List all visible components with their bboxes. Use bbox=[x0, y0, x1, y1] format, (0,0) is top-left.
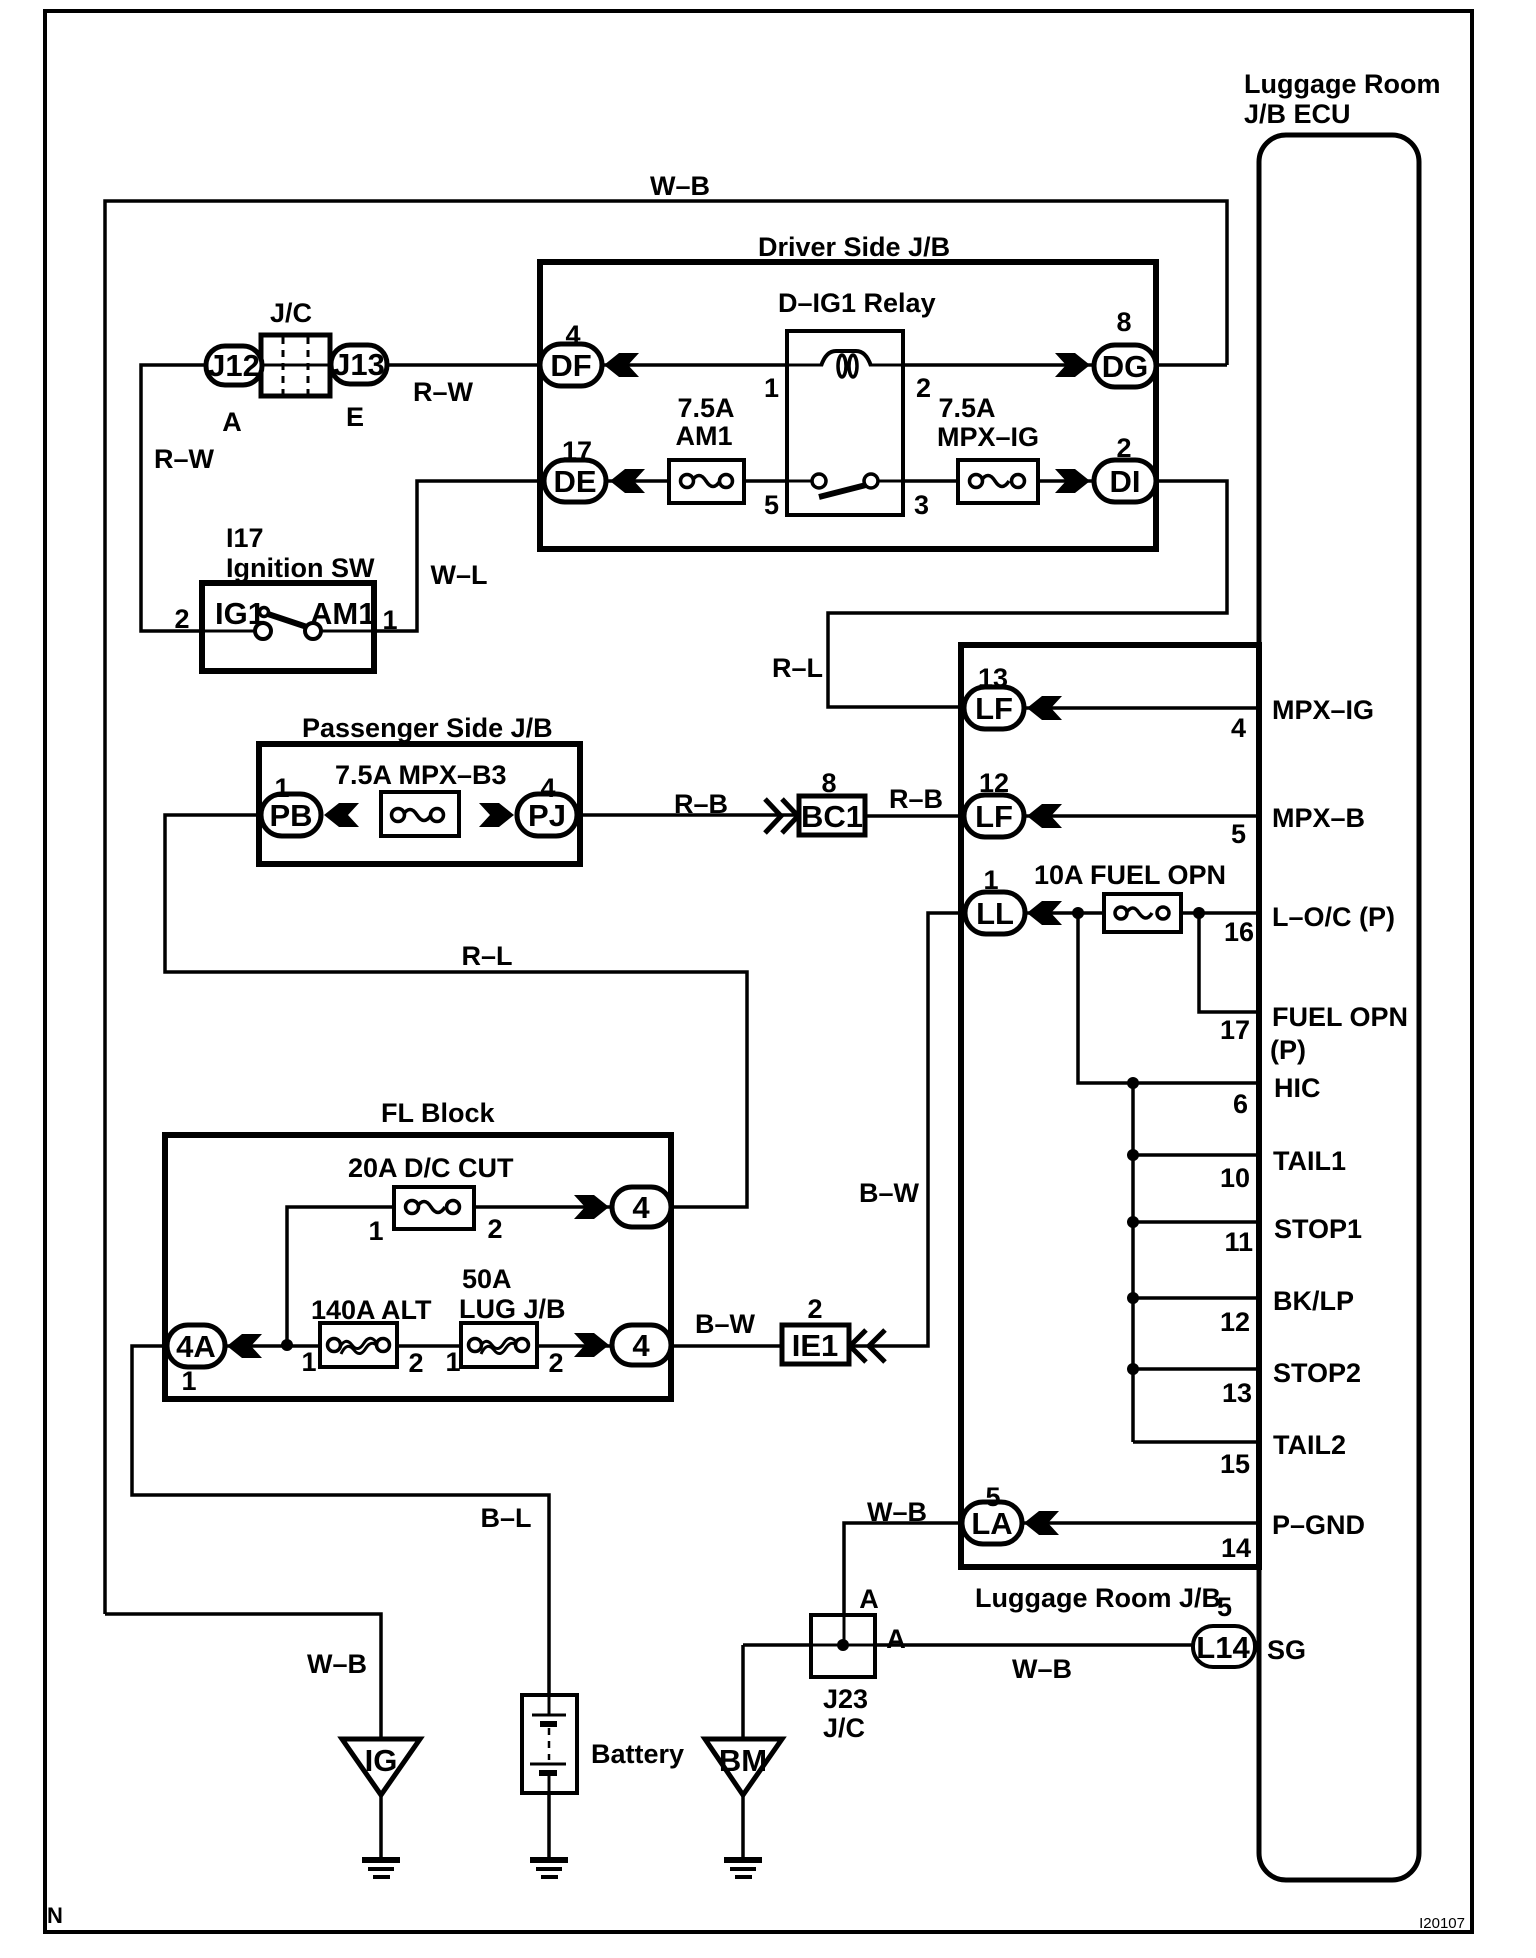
connector L14 bbox=[1193, 1626, 1255, 1667]
wire BC1 to LF12 bbox=[866, 814, 968, 818]
svg-text:5: 5 bbox=[985, 1482, 1000, 1512]
junction dot LL left bbox=[1072, 907, 1084, 919]
connector J13 bbox=[331, 345, 387, 432]
wire TAIL1 pin bbox=[1133, 1153, 1259, 1157]
svg-text:BC1: BC1 bbox=[801, 799, 863, 834]
svg-text:17: 17 bbox=[562, 436, 592, 466]
svg-text:W–B: W–B bbox=[867, 1497, 927, 1527]
wire battery to ground bbox=[547, 1793, 551, 1862]
wire FUEL OPN pin bbox=[1199, 913, 1259, 1012]
svg-text:Battery: Battery bbox=[591, 1739, 684, 1769]
svg-text:HIC: HIC bbox=[1274, 1073, 1321, 1103]
svg-text:15: 15 bbox=[1220, 1449, 1250, 1479]
svg-text:1: 1 bbox=[445, 1347, 460, 1377]
wire PB to R-L riser bbox=[165, 815, 747, 1207]
wire LL row to ECU bbox=[1022, 911, 1259, 915]
connector DE bbox=[544, 436, 645, 502]
wire J/C through bbox=[262, 363, 331, 367]
connector BC1 bbox=[799, 768, 865, 835]
svg-text:10: 10 bbox=[1220, 1163, 1250, 1193]
wire FL row2 to IE1 (B-W) bbox=[668, 1344, 785, 1348]
svg-text:R–W: R–W bbox=[413, 377, 474, 407]
svg-text:12: 12 bbox=[979, 768, 1009, 798]
Driver Side J/B box bbox=[540, 262, 1156, 549]
svg-text:1: 1 bbox=[181, 1366, 196, 1396]
wire DF to DG through relay bbox=[602, 363, 1098, 367]
ground triangle IG bbox=[342, 1739, 420, 1877]
fuse 20A D/C CUT bbox=[348, 1153, 514, 1246]
svg-text:IG: IG bbox=[365, 1743, 398, 1778]
svg-text:TAIL2: TAIL2 bbox=[1273, 1430, 1346, 1460]
junction connector J/C box bbox=[261, 298, 330, 396]
svg-text:J/B ECU: J/B ECU bbox=[1244, 99, 1351, 129]
wire inside relay switch row bbox=[787, 480, 813, 483]
connector PB bbox=[261, 773, 359, 836]
svg-text:R–L: R–L bbox=[461, 941, 512, 971]
junction connector J23 bbox=[811, 1584, 906, 1743]
svg-text:DF: DF bbox=[550, 348, 591, 383]
svg-text:14: 14 bbox=[1221, 1533, 1251, 1563]
svg-text:BK/LP: BK/LP bbox=[1273, 1286, 1354, 1316]
svg-text:6: 6 bbox=[1233, 1089, 1248, 1119]
svg-text:4: 4 bbox=[632, 1328, 650, 1363]
wire STOP1 pin bbox=[1133, 1220, 1259, 1224]
svg-text:4: 4 bbox=[565, 320, 580, 350]
junction dot HIC bbox=[1127, 1077, 1139, 1089]
svg-text:4: 4 bbox=[1231, 713, 1246, 743]
svg-text:J13: J13 bbox=[333, 347, 385, 382]
wire bus vertical bbox=[1131, 1083, 1135, 1442]
fusible link 50A LUG J/B bbox=[445, 1264, 565, 1378]
connector J12 bbox=[206, 346, 262, 437]
svg-text:BM: BM bbox=[719, 1743, 767, 1778]
svg-text:R–B: R–B bbox=[674, 789, 728, 819]
junction dot STOP1 bbox=[1127, 1216, 1139, 1228]
svg-text:8: 8 bbox=[821, 768, 836, 798]
svg-text:16: 16 bbox=[1224, 917, 1254, 947]
svg-text:4: 4 bbox=[540, 773, 555, 803]
svg-text:1: 1 bbox=[301, 1347, 316, 1377]
svg-text:4: 4 bbox=[632, 1190, 650, 1225]
relay switch contacts bbox=[819, 485, 866, 497]
wire P-GND pin bbox=[1018, 1521, 1259, 1525]
wire inside relay coil row bbox=[787, 364, 823, 367]
wire W-B top horizontal bbox=[105, 201, 1227, 1614]
svg-text:5: 5 bbox=[1217, 1592, 1232, 1622]
svg-text:5: 5 bbox=[764, 490, 779, 520]
svg-text:W–B: W–B bbox=[307, 1649, 367, 1679]
svg-text:STOP1: STOP1 bbox=[1274, 1214, 1362, 1244]
relay coil bbox=[821, 351, 871, 366]
connector 4A bbox=[167, 1325, 262, 1396]
wire STOP2 pin bbox=[1133, 1367, 1259, 1371]
svg-text:L–O/C (P): L–O/C (P) bbox=[1272, 902, 1395, 932]
svg-text:LF: LF bbox=[975, 691, 1013, 726]
svg-text:LF: LF bbox=[975, 799, 1013, 834]
svg-text:W–L: W–L bbox=[431, 560, 488, 590]
svg-text:50A: 50A bbox=[462, 1264, 512, 1294]
svg-text:2: 2 bbox=[408, 1348, 423, 1378]
svg-text:A: A bbox=[886, 1624, 906, 1654]
svg-text:B–W: B–W bbox=[695, 1309, 756, 1339]
connector DI bbox=[1055, 433, 1156, 502]
svg-text:10A FUEL OPN: 10A FUEL OPN bbox=[1034, 860, 1226, 890]
fuse 7.5A MPX-IG bbox=[937, 393, 1039, 503]
wire PJ to BC1 bbox=[574, 813, 802, 817]
svg-text:Luggage Room: Luggage Room bbox=[1244, 69, 1441, 99]
svg-text:2: 2 bbox=[174, 604, 189, 634]
wire relay switch to DI bbox=[871, 479, 1098, 483]
junction dot FL row2 bbox=[281, 1339, 293, 1351]
svg-text:B–W: B–W bbox=[859, 1178, 920, 1208]
Passenger Side J/B box bbox=[259, 744, 580, 864]
svg-text:R–L: R–L bbox=[772, 653, 823, 683]
connector 4 row2 bbox=[574, 1325, 671, 1365]
svg-text:MPX–IG: MPX–IG bbox=[937, 422, 1039, 452]
fuse 10A FUEL OPN bbox=[1034, 860, 1226, 932]
svg-text:DI: DI bbox=[1110, 464, 1141, 499]
connector LF 13 bbox=[964, 663, 1062, 729]
svg-text:3: 3 bbox=[914, 490, 929, 520]
svg-text:MPX–B: MPX–B bbox=[1272, 803, 1365, 833]
junction dot STOP2 bbox=[1127, 1363, 1139, 1375]
Luggage Room J/B ECU outline bbox=[1259, 135, 1419, 1880]
chevrons after IE1 bbox=[850, 1330, 885, 1362]
svg-text:1: 1 bbox=[368, 1216, 383, 1246]
svg-text:STOP2: STOP2 bbox=[1273, 1358, 1361, 1388]
battery bbox=[522, 1695, 684, 1877]
svg-text:I20107: I20107 bbox=[1419, 1915, 1465, 1932]
connector LF 12 bbox=[964, 768, 1062, 837]
svg-text:R–B: R–B bbox=[889, 784, 943, 814]
svg-text:IE1: IE1 bbox=[792, 1328, 839, 1363]
wire DI down to LF13 (R-L) bbox=[828, 481, 1227, 707]
svg-text:B–L: B–L bbox=[480, 1503, 531, 1533]
wire TAIL2 pin bbox=[1133, 1440, 1259, 1444]
svg-text:L14: L14 bbox=[1196, 1630, 1250, 1665]
connector 4 row1 bbox=[574, 1187, 671, 1227]
wire J12 to ignition SW bbox=[141, 365, 263, 631]
svg-text:1: 1 bbox=[764, 373, 779, 403]
svg-text:Passenger Side J/B: Passenger Side J/B bbox=[302, 713, 553, 743]
svg-text:2: 2 bbox=[916, 373, 931, 403]
svg-text:7.5A MPX–B3: 7.5A MPX–B3 bbox=[335, 760, 507, 790]
wire FL row2 main bbox=[225, 1344, 612, 1348]
svg-text:140A ALT: 140A ALT bbox=[311, 1295, 432, 1325]
svg-text:Ignition SW: Ignition SW bbox=[226, 553, 375, 583]
svg-text:A: A bbox=[222, 407, 242, 437]
junction dot LL right bbox=[1193, 907, 1205, 919]
fuse 7.5A MPX-B3 bbox=[335, 760, 507, 836]
svg-text:17: 17 bbox=[1220, 1015, 1250, 1045]
wire J23 to BM bbox=[741, 1645, 745, 1741]
svg-text:FUEL OPN: FUEL OPN bbox=[1272, 1002, 1408, 1032]
connector IE1 bbox=[782, 1294, 849, 1364]
svg-text:Driver Side J/B: Driver Side J/B bbox=[758, 232, 950, 262]
svg-text:5: 5 bbox=[1231, 819, 1246, 849]
wire MPX-IG pin bbox=[1021, 706, 1259, 710]
svg-text:PJ: PJ bbox=[528, 798, 566, 833]
connector PJ bbox=[479, 773, 577, 836]
svg-text:Luggage Room J/B: Luggage Room J/B bbox=[975, 1583, 1221, 1613]
svg-text:LUG J/B: LUG J/B bbox=[459, 1294, 566, 1324]
svg-text:SG: SG bbox=[1267, 1635, 1306, 1665]
FL Block box bbox=[165, 1135, 671, 1399]
wire BK/LP pin bbox=[1133, 1296, 1259, 1300]
wire LA to J23 (W-B) bbox=[844, 1523, 966, 1644]
svg-text:8: 8 bbox=[1116, 307, 1131, 337]
svg-text:(P): (P) bbox=[1270, 1035, 1306, 1065]
svg-text:E: E bbox=[346, 402, 364, 432]
svg-text:2: 2 bbox=[548, 1348, 563, 1378]
wire MPX-B pin bbox=[1021, 814, 1259, 818]
ignition switch I17 box bbox=[174, 523, 397, 671]
wire J13 to DF bbox=[387, 363, 545, 367]
connector DF bbox=[540, 320, 639, 386]
wire 4A to B-L riser bbox=[132, 1346, 549, 1697]
svg-text:2: 2 bbox=[487, 1214, 502, 1244]
svg-text:DE: DE bbox=[553, 464, 596, 499]
junction dot BK/LP bbox=[1127, 1292, 1139, 1304]
svg-text:N: N bbox=[47, 1903, 63, 1928]
wire FL row1 D/C CUT bbox=[287, 1207, 612, 1345]
junction dot TAIL1 bbox=[1127, 1149, 1139, 1161]
svg-text:J/C: J/C bbox=[823, 1713, 865, 1743]
D-IG1 Relay box bbox=[787, 331, 903, 515]
connector DG bbox=[1055, 307, 1156, 387]
svg-text:D–IG1 Relay: D–IG1 Relay bbox=[778, 288, 936, 318]
svg-text:P–GND: P–GND bbox=[1272, 1510, 1365, 1540]
svg-text:A: A bbox=[859, 1584, 879, 1614]
svg-text:12: 12 bbox=[1220, 1307, 1250, 1337]
wire IE1 to LL riser (B-W) bbox=[846, 913, 968, 1346]
svg-text:13: 13 bbox=[978, 663, 1008, 693]
svg-text:DG: DG bbox=[1102, 349, 1149, 384]
svg-text:J23: J23 bbox=[823, 1684, 868, 1714]
wire W-B to IG ground bbox=[105, 1614, 381, 1741]
chevrons into BC1 bbox=[765, 799, 798, 833]
svg-text:11: 11 bbox=[1224, 1227, 1253, 1257]
connector LA bbox=[962, 1482, 1059, 1544]
svg-text:W–B: W–B bbox=[650, 171, 710, 201]
svg-text:20A D/C CUT: 20A D/C CUT bbox=[348, 1153, 514, 1183]
svg-text:MPX–IG: MPX–IG bbox=[1272, 695, 1374, 725]
svg-text:2: 2 bbox=[1116, 433, 1131, 463]
svg-text:2: 2 bbox=[807, 1294, 822, 1324]
svg-text:1: 1 bbox=[983, 865, 998, 895]
svg-text:1: 1 bbox=[274, 773, 289, 803]
svg-text:J/C: J/C bbox=[270, 298, 312, 328]
wire DG to W-B drop bbox=[1152, 363, 1227, 367]
Luggage Room J/B box bbox=[961, 645, 1259, 1567]
svg-text:R–W: R–W bbox=[154, 444, 215, 474]
wire BM apex to ground bbox=[741, 1793, 745, 1862]
connector LL bbox=[965, 865, 1062, 934]
svg-text:7.5A: 7.5A bbox=[677, 393, 734, 423]
svg-text:J12: J12 bbox=[208, 348, 260, 383]
svg-text:7.5A: 7.5A bbox=[938, 393, 995, 423]
svg-text:PB: PB bbox=[269, 798, 312, 833]
svg-text:W–B: W–B bbox=[1012, 1654, 1072, 1684]
svg-text:I17: I17 bbox=[226, 523, 264, 553]
svg-text:4A: 4A bbox=[176, 1329, 216, 1364]
wire HIC pin bbox=[1078, 913, 1259, 1083]
svg-text:1: 1 bbox=[382, 605, 397, 635]
fuse 7.5A AM1 bbox=[669, 393, 744, 503]
ground triangle BM bbox=[705, 1739, 782, 1877]
svg-text:TAIL1: TAIL1 bbox=[1273, 1146, 1346, 1176]
svg-text:AM1: AM1 bbox=[675, 421, 732, 451]
wire IG apex to ground bbox=[379, 1793, 383, 1862]
fusible link 140A ALT bbox=[301, 1295, 432, 1378]
wire ignition SW to DE (W-L) bbox=[313, 481, 819, 631]
wire J23 to L14 (W-B) bbox=[743, 1643, 1195, 1647]
svg-text:FL Block: FL Block bbox=[381, 1098, 496, 1128]
svg-text:13: 13 bbox=[1222, 1378, 1252, 1408]
svg-text:LL: LL bbox=[976, 896, 1014, 931]
